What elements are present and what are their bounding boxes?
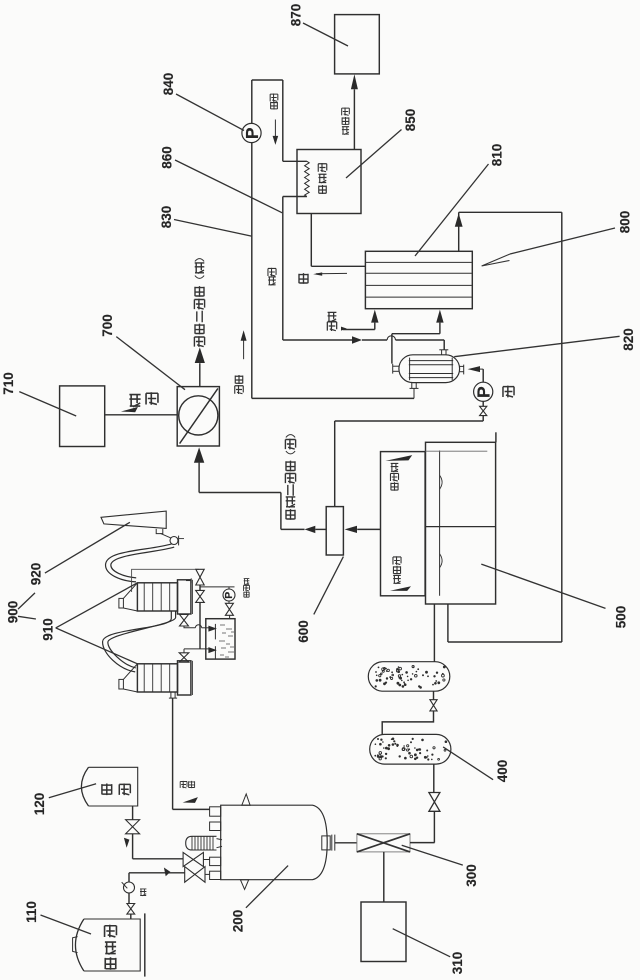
svg-text:870: 870	[289, 4, 304, 27]
svg-text:600: 600	[296, 620, 311, 643]
svg-text:710: 710	[1, 372, 16, 395]
svg-text:910: 910	[41, 618, 56, 641]
svg-text:820: 820	[621, 328, 636, 351]
svg-text:120: 120	[32, 793, 47, 816]
svg-text:P: P	[223, 592, 235, 599]
svg-text:830: 830	[159, 206, 174, 229]
svg-text:810: 810	[490, 144, 505, 167]
svg-text:860: 860	[160, 146, 175, 169]
svg-text:400: 400	[495, 760, 510, 783]
svg-text:P: P	[242, 127, 262, 139]
svg-text:200: 200	[231, 910, 246, 933]
svg-text:300: 300	[464, 864, 479, 887]
svg-text:500: 500	[614, 606, 629, 629]
svg-text:310: 310	[450, 952, 465, 975]
svg-text:110: 110	[24, 901, 39, 923]
svg-text:920: 920	[29, 563, 44, 586]
svg-text:840: 840	[161, 73, 176, 96]
svg-text:800: 800	[618, 211, 633, 234]
svg-text:900: 900	[6, 601, 21, 624]
svg-text:P: P	[474, 386, 494, 398]
svg-text:850: 850	[403, 109, 418, 132]
svg-text:700: 700	[100, 314, 115, 337]
